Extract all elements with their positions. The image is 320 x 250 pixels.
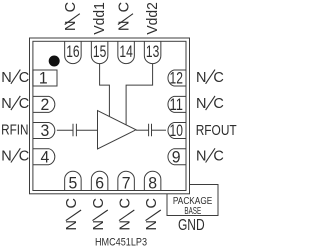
capacitor C2 [149,124,152,136]
svg-text:HMC451LP3: HMC451LP3 [95,237,147,249]
wire RFIN to C1 [57,129,73,131]
svg-text:12: 12 [170,69,183,88]
capacitor C1 [73,124,76,136]
svg-text:6: 6 [95,173,104,192]
package base pad box [167,185,218,216]
svg-text:N: N [63,21,79,31]
svg-text:C: C [64,198,80,208]
label N/C pin 4 [1,148,29,164]
label N/C pin 7 [117,198,134,230]
wire C2 to RFOUT [152,129,167,131]
pin 1 [33,70,57,86]
pin 2 [33,96,55,112]
svg-text:2: 2 [41,95,50,114]
wire C1 to amp [76,129,97,131]
pin 16 [65,41,82,63]
svg-text:8: 8 [148,173,157,192]
pin 13 [144,41,161,63]
svg-text:4: 4 [41,147,50,166]
svg-text:N: N [196,96,206,112]
svg-text:Vdd2: Vdd2 [145,2,161,34]
pin 1 marker dot [49,56,60,67]
svg-text:Vdd1: Vdd1 [92,2,108,34]
svg-text:C: C [19,149,29,165]
label N/C pin 2 [1,96,29,112]
svg-text:14: 14 [119,42,132,61]
pin 7 [118,171,135,190]
package outline inner [33,41,186,190]
svg-text:11: 11 [170,95,183,114]
pin 12 [168,70,186,86]
wire Vdd1 [100,64,110,117]
svg-text:N: N [1,70,11,86]
svg-text:GND: GND [178,217,205,234]
svg-text:RFOUT: RFOUT [196,123,237,139]
svg-text:RFIN: RFIN [1,123,28,139]
svg-text:C: C [116,2,132,12]
pin 3 [33,123,55,139]
label N/C pin 6 [91,198,108,230]
label N/C pin 12 [196,70,224,86]
svg-text:N: N [116,21,132,31]
svg-text:C: C [19,70,29,86]
label N/C pin 8 [144,198,161,230]
svg-text:N: N [117,220,133,230]
pin 8 [144,171,161,190]
wire amp to C2 [136,129,149,131]
svg-text:C: C [63,2,79,12]
svg-text:15: 15 [93,42,106,61]
svg-text:BASE: BASE [184,206,201,217]
label N/C pin 5 [64,198,81,230]
svg-text:10: 10 [170,121,183,140]
pin 10 [168,123,186,139]
op-amp triangle [98,111,137,149]
svg-text:C: C [213,96,223,112]
wire Vdd2 [126,64,153,125]
svg-text:C: C [91,198,107,208]
svg-text:9: 9 [172,147,181,166]
svg-text:5: 5 [69,173,78,192]
svg-text:C: C [213,149,223,165]
pin 14 [118,41,135,63]
svg-text:N: N [1,96,11,112]
label N/C pin 14 [116,2,133,31]
svg-text:N: N [64,220,80,230]
svg-text:16: 16 [66,42,79,61]
pin 5 [65,171,82,190]
svg-text:N: N [144,220,160,230]
svg-text:N: N [91,220,107,230]
svg-text:3: 3 [41,121,50,140]
pin 4 [33,149,55,165]
svg-text:C: C [19,96,29,112]
pin 9 [168,149,186,165]
label N/C pin 11 [196,96,224,112]
pin 6 [91,171,108,190]
svg-text:C: C [213,70,223,86]
package outline outer [30,38,190,194]
svg-text:N: N [196,149,206,165]
label N/C pin 9 [196,148,224,164]
svg-text:N: N [1,149,11,165]
pin 11 [168,96,186,112]
svg-text:1: 1 [39,69,48,88]
svg-text:C: C [144,198,160,208]
label N/C pin 16 [63,2,80,31]
svg-text:N: N [196,70,206,86]
svg-text:13: 13 [146,42,159,61]
label N/C pin 1 [1,70,29,86]
pin 15 [91,41,108,63]
svg-text:7: 7 [122,173,131,192]
svg-text:C: C [117,198,133,208]
